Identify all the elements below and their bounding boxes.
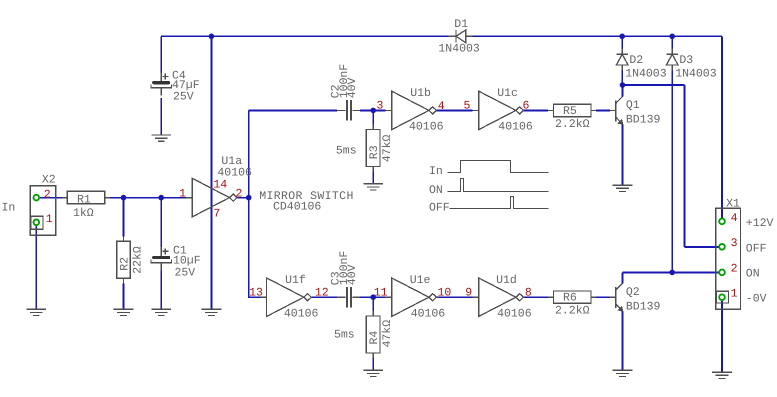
- svg-text:U1d: U1d: [496, 274, 517, 287]
- svg-text:5: 5: [464, 100, 471, 113]
- svg-text:5ms: 5ms: [334, 329, 355, 342]
- svg-text:2: 2: [44, 189, 51, 202]
- svg-text:ON: ON: [746, 268, 760, 281]
- svg-text:14: 14: [213, 178, 227, 191]
- svg-text:40106: 40106: [498, 121, 533, 134]
- svg-text:ON: ON: [429, 184, 443, 197]
- svg-text:40106: 40106: [497, 308, 532, 321]
- svg-text:10µF: 10µF: [173, 254, 201, 267]
- svg-text:8: 8: [525, 287, 532, 300]
- svg-text:In: In: [429, 165, 443, 178]
- svg-text:13: 13: [249, 287, 263, 300]
- svg-text:OFF: OFF: [429, 201, 450, 214]
- svg-text:1: 1: [179, 187, 186, 200]
- svg-text:BD139: BD139: [626, 114, 661, 127]
- svg-text:6: 6: [523, 100, 530, 113]
- svg-text:R4: R4: [368, 331, 381, 345]
- svg-text:3: 3: [377, 100, 384, 113]
- svg-text:2: 2: [731, 262, 738, 275]
- svg-text:9: 9: [465, 287, 472, 300]
- svg-text:4: 4: [731, 212, 738, 225]
- svg-text:3: 3: [731, 237, 738, 250]
- svg-text:2.2kΩ: 2.2kΩ: [555, 118, 590, 131]
- svg-text:Q2: Q2: [626, 286, 640, 299]
- svg-text:7: 7: [213, 208, 220, 221]
- svg-text:1N4003: 1N4003: [625, 68, 667, 81]
- svg-text:CD40106: CD40106: [273, 201, 321, 214]
- svg-text:R6: R6: [563, 292, 577, 305]
- svg-text:X1: X1: [726, 198, 740, 211]
- svg-text:5ms: 5ms: [336, 145, 357, 158]
- svg-text:R5: R5: [563, 105, 577, 118]
- svg-text:1kΩ: 1kΩ: [73, 207, 94, 220]
- svg-text:In: In: [2, 202, 16, 215]
- svg-text:OFF: OFF: [746, 242, 767, 255]
- svg-text:U1e: U1e: [410, 274, 431, 287]
- svg-text:1N4003: 1N4003: [438, 42, 480, 55]
- svg-text:2.2kΩ: 2.2kΩ: [555, 305, 590, 318]
- svg-text:40V: 40V: [346, 264, 359, 285]
- svg-text:40106: 40106: [284, 308, 319, 321]
- svg-text:22kΩ: 22kΩ: [132, 246, 145, 274]
- svg-text:1N4003: 1N4003: [675, 68, 717, 81]
- svg-text:47kΩ: 47kΩ: [381, 134, 394, 162]
- svg-text:12: 12: [315, 287, 329, 300]
- svg-text:D1: D1: [454, 18, 468, 31]
- svg-text:1: 1: [46, 213, 53, 226]
- svg-text:BD139: BD139: [626, 300, 661, 313]
- svg-text:D3: D3: [679, 54, 693, 67]
- svg-text:40V: 40V: [346, 77, 359, 98]
- svg-text:R1: R1: [77, 194, 91, 207]
- svg-text:R2: R2: [119, 257, 132, 271]
- svg-text:X2: X2: [42, 174, 56, 187]
- svg-text:4: 4: [438, 100, 445, 113]
- svg-text:+12V: +12V: [746, 217, 774, 230]
- svg-text:25V: 25V: [173, 90, 194, 103]
- svg-text:Q1: Q1: [626, 99, 640, 112]
- svg-text:40106: 40106: [409, 121, 444, 134]
- svg-text:1: 1: [731, 287, 738, 300]
- svg-text:10: 10: [438, 287, 452, 300]
- svg-text:-0V: -0V: [746, 293, 767, 306]
- svg-text:11: 11: [374, 287, 388, 300]
- svg-text:R3: R3: [368, 145, 381, 159]
- svg-text:D2: D2: [629, 54, 643, 67]
- svg-text:U1c: U1c: [497, 87, 518, 100]
- svg-text:47kΩ: 47kΩ: [381, 320, 394, 348]
- svg-text:U1f: U1f: [285, 274, 306, 287]
- svg-text:2: 2: [236, 187, 243, 200]
- svg-text:25V: 25V: [175, 267, 196, 280]
- svg-text:40106: 40106: [411, 308, 446, 321]
- svg-text:U1b: U1b: [410, 87, 431, 100]
